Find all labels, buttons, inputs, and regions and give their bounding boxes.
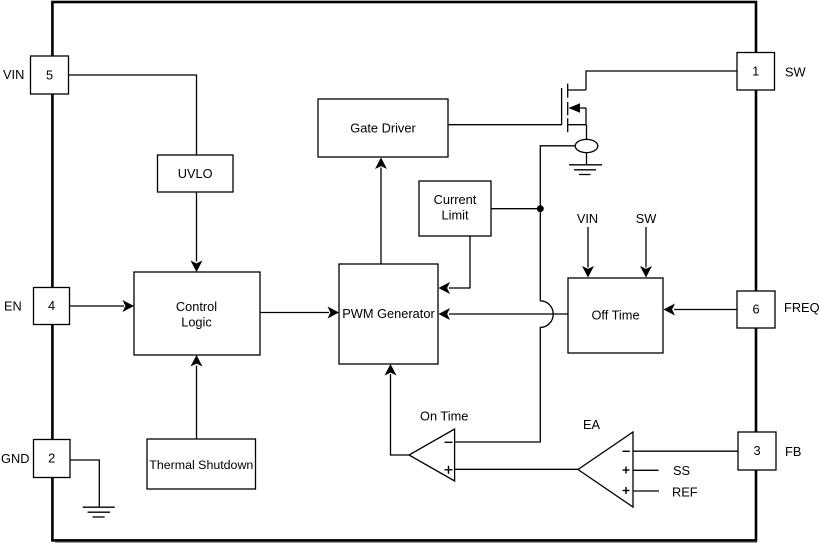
pin 3 FB (738, 432, 776, 470)
EA + sign (SS) (623, 469, 630, 471)
svg-text:4: 4 (48, 298, 55, 313)
wire On Time output to PWM Generator (391, 374, 410, 455)
wire SS stub (633, 469, 659, 471)
wire pin2 GND to ground (70, 460, 99, 507)
svg-text:Current: Current (434, 192, 477, 207)
wire EA output to On Time + input (455, 468, 578, 470)
svg-text:FB: FB (785, 444, 801, 459)
svg-text:3: 3 (753, 443, 760, 458)
svg-text:EA: EA (583, 417, 601, 432)
svg-text:On Time: On Time (420, 409, 468, 424)
svg-text:Control: Control (176, 299, 217, 314)
transistor M1 (N-MOSFET) (562, 84, 586, 133)
svg-text:VIN: VIN (577, 211, 598, 226)
Current Limit block (419, 181, 491, 236)
wire ellipse to ground (586, 153, 588, 165)
wire Off Time to PWM Generator (449, 313, 568, 315)
wire PWM Generator to Gate Driver (380, 168, 382, 265)
comparator On Time (409, 429, 455, 481)
svg-text:6: 6 (752, 302, 759, 317)
Control Logic block (134, 272, 260, 355)
wire pin4 EN to Control Logic (70, 305, 125, 307)
On Time - sign (445, 441, 453, 443)
svg-text:SS: SS (673, 463, 690, 478)
wire Thermal Shutdown to Control Logic (196, 366, 198, 440)
svg-text:REF: REF (672, 485, 698, 500)
pin 5 VIN (31, 56, 69, 94)
wire Control Logic to PWM Generator (260, 312, 329, 314)
svg-text:5: 5 (46, 68, 53, 83)
wire pin6 FREQ to Off Time (674, 309, 737, 311)
UVLO block (158, 155, 234, 192)
shadow of main IC boundary (55, 541, 757, 543)
wire UVLO to Control Logic (196, 192, 198, 262)
pin 4 EN (34, 288, 70, 325)
wire MOSFET drain to pin1 SW (586, 71, 737, 90)
On Time + sign (445, 469, 453, 471)
svg-text:EN: EN (4, 298, 22, 313)
op-amp EA (578, 432, 633, 507)
pin 1 SW (737, 53, 775, 91)
svg-text:SW: SW (636, 211, 658, 226)
svg-text:2: 2 (48, 450, 55, 465)
wire pin3 FB to EA - input (633, 450, 738, 452)
pin 2 GND (34, 440, 71, 478)
wire REF stub (633, 490, 659, 492)
wire Current Limit to junction (491, 208, 540, 210)
svg-text:Limit: Limit (441, 208, 468, 223)
svg-text:Gate Driver: Gate Driver (350, 120, 416, 135)
Thermal Shutdown block (147, 439, 256, 489)
PWM Generator block (339, 264, 438, 364)
svg-text:GND: GND (1, 451, 29, 466)
svg-text:PWM Generator: PWM Generator (342, 306, 435, 321)
EA + sign (REF) (623, 490, 630, 492)
ground (GND pin) (83, 507, 115, 517)
EA - sign (623, 450, 630, 452)
wire pin5 VIN to UVLO (69, 75, 197, 155)
pin 6 FREQ (737, 291, 775, 328)
ground (MOSFET source) (569, 165, 602, 175)
wire MOSFET source to sense ellipse (586, 125, 588, 139)
Off Time block (568, 278, 663, 353)
junction dot (537, 205, 544, 212)
svg-text:FREQ: FREQ (784, 300, 819, 315)
current sense ellipse (575, 139, 598, 152)
svg-text:VIN: VIN (3, 67, 24, 82)
svg-text:Off Time: Off Time (591, 308, 639, 323)
wire Current Limit to PWM Generator (449, 236, 470, 288)
svg-text:Logic: Logic (181, 315, 212, 330)
wire Gate Driver to MOSFET gate (448, 124, 561, 126)
wire current sense to On Time comparator (with hop) (455, 146, 575, 442)
svg-text:UVLO: UVLO (178, 166, 213, 181)
svg-text:1: 1 (752, 64, 759, 79)
svg-text:SW: SW (785, 65, 807, 80)
svg-text:Thermal Shutdown: Thermal Shutdown (149, 458, 253, 472)
Gate Driver block (318, 99, 448, 157)
MOSFET body arrow (578, 107, 586, 109)
